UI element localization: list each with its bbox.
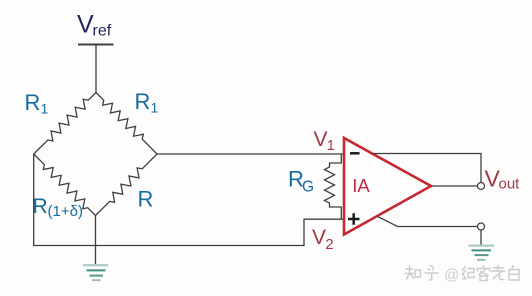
svg-text:2: 2 [325, 236, 333, 253]
sense wire to output node [373, 154, 481, 183]
resistor R bottom-right arm [96, 154, 158, 216]
plus input sign [348, 213, 360, 225]
ground bridge [83, 265, 109, 280]
wire Vref to bridge top node [95, 45, 97, 93]
svg-text:V: V [314, 128, 328, 151]
wire bridge bottom node to ground [95, 216, 97, 266]
svg-text:R: R [33, 195, 48, 218]
wire right node to IA inverting input [157, 153, 344, 155]
svg-text:V: V [77, 11, 94, 39]
svg-text:ref: ref [93, 23, 112, 40]
output terminal [478, 183, 485, 190]
resistor R1 top-right arm [96, 93, 157, 155]
output wire [431, 185, 478, 187]
resistor R(1+delta) bottom-left arm [34, 154, 96, 216]
reference terminal [478, 223, 485, 230]
op-amp IA triangle [344, 138, 431, 235]
minus input sign [350, 152, 360, 155]
resistor RG [325, 154, 342, 219]
svg-text:@: @ [444, 267, 459, 284]
watermark zhihu [406, 266, 421, 279]
svg-text:out: out [499, 176, 521, 193]
svg-text:R: R [138, 187, 154, 212]
svg-text:V: V [312, 226, 326, 249]
svg-text:IA: IA [352, 175, 370, 196]
Vref power rail bar [78, 44, 114, 46]
resistor R1 top-left arm [34, 93, 96, 155]
svg-text:1: 1 [41, 101, 49, 117]
svg-text:1: 1 [327, 138, 335, 154]
wire terminal to ground [480, 230, 482, 245]
svg-text:1: 1 [151, 100, 159, 116]
svg-text:(1+δ): (1+δ) [48, 203, 83, 220]
svg-text:G: G [302, 179, 314, 196]
svg-text:R: R [135, 89, 151, 114]
svg-text:R: R [25, 90, 41, 115]
wire left node to V2 riser [34, 154, 344, 246]
reference wire to ground terminal [377, 216, 478, 226]
ground output [469, 246, 495, 260]
